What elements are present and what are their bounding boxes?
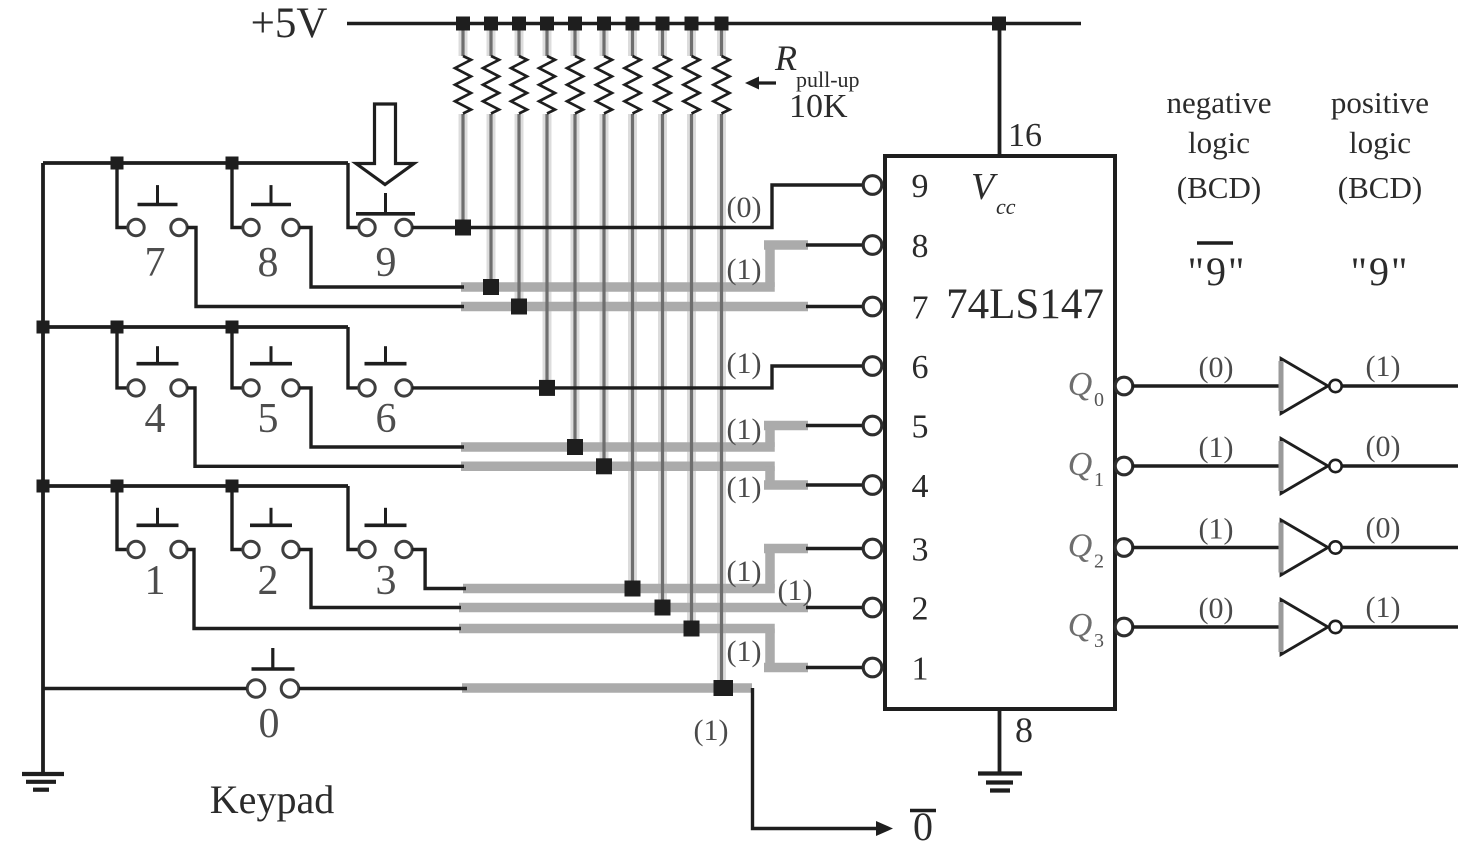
svg-text:2: 2: [912, 591, 929, 628]
svg-text:R: R: [774, 38, 797, 78]
svg-text:Keypad: Keypad: [210, 777, 334, 822]
svg-text:(0): (0): [1199, 351, 1234, 384]
svg-text:(0): (0): [1366, 430, 1401, 463]
svg-text:0: 0: [259, 701, 280, 747]
svg-text:8: 8: [912, 228, 929, 265]
svg-text:5: 5: [912, 409, 929, 446]
svg-text:(1): (1): [727, 347, 762, 380]
svg-text:1: 1: [912, 651, 929, 688]
svg-text:3: 3: [376, 558, 397, 604]
svg-text:negative: negative: [1166, 85, 1271, 120]
svg-text:0: 0: [1094, 389, 1104, 411]
svg-text:(0): (0): [1366, 512, 1401, 545]
svg-text:3: 3: [912, 532, 929, 569]
svg-text:V: V: [971, 166, 998, 208]
svg-text:2: 2: [258, 558, 279, 604]
svg-text:(0): (0): [1199, 592, 1234, 625]
svg-text:1: 1: [1094, 469, 1104, 491]
svg-text:10K: 10K: [789, 88, 848, 125]
svg-text:7: 7: [912, 290, 929, 327]
svg-text:5: 5: [258, 396, 279, 442]
svg-text:"9": "9": [1351, 249, 1410, 294]
svg-text:(1): (1): [694, 714, 729, 747]
svg-text:(1): (1): [727, 413, 762, 446]
svg-text:(1): (1): [727, 471, 762, 504]
svg-text:"9": "9": [1188, 249, 1247, 294]
svg-text:(1): (1): [727, 555, 762, 588]
svg-text:positive: positive: [1331, 85, 1429, 120]
svg-text:(1): (1): [1366, 350, 1401, 383]
svg-text:9: 9: [912, 168, 929, 205]
svg-text:Q: Q: [1068, 446, 1093, 483]
svg-text:logic: logic: [1188, 125, 1250, 160]
svg-text:2: 2: [1094, 551, 1104, 573]
svg-text:Q: Q: [1068, 528, 1093, 565]
svg-text:(1): (1): [1366, 591, 1401, 624]
svg-text:logic: logic: [1349, 125, 1411, 160]
svg-text:(1): (1): [1199, 513, 1234, 546]
svg-text:+5V: +5V: [251, 0, 328, 47]
svg-text:(BCD): (BCD): [1177, 170, 1261, 205]
svg-text:Q: Q: [1068, 366, 1093, 403]
svg-text:(BCD): (BCD): [1338, 170, 1422, 205]
svg-text:8: 8: [258, 240, 279, 286]
svg-text:1: 1: [145, 558, 166, 604]
svg-text:(1): (1): [727, 635, 762, 668]
svg-text:6: 6: [912, 349, 929, 386]
svg-text:74LS147: 74LS147: [946, 281, 1104, 328]
svg-text:9: 9: [376, 240, 397, 286]
svg-text:16: 16: [1008, 117, 1042, 154]
svg-text:7: 7: [145, 240, 166, 286]
svg-text:4: 4: [145, 396, 166, 442]
svg-text:8: 8: [1015, 710, 1033, 750]
svg-text:(1): (1): [1199, 431, 1234, 464]
svg-text:3: 3: [1094, 630, 1104, 652]
svg-text:6: 6: [376, 396, 397, 442]
svg-text:(1): (1): [778, 574, 813, 607]
svg-text:(1): (1): [727, 253, 762, 286]
svg-text:4: 4: [912, 468, 929, 505]
svg-text:Q: Q: [1068, 607, 1093, 644]
svg-text:(0): (0): [727, 191, 762, 224]
svg-text:cc: cc: [996, 194, 1016, 219]
